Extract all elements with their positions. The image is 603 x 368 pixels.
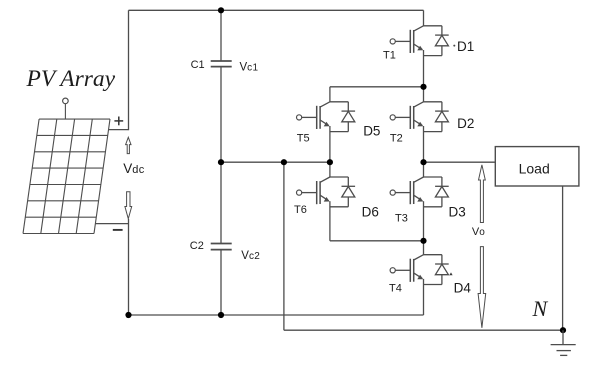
label - terminal bbox=[113, 229, 123, 231]
svg-text:D5: D5 bbox=[363, 123, 380, 138]
transistor T5 (IGBT) bbox=[297, 87, 330, 162]
svg-text:Vo: Vo bbox=[472, 226, 485, 238]
node node N junction bbox=[560, 327, 566, 333]
wire PV + terminal stub bbox=[109, 129, 129, 131]
transistor T2 (IGBT) bbox=[390, 87, 423, 162]
node bottom rail / left wire junction bbox=[125, 312, 131, 318]
svg-text:D3: D3 bbox=[449, 205, 466, 220]
svg-text:T5: T5 bbox=[297, 132, 310, 144]
svg-text:T2: T2 bbox=[390, 132, 403, 144]
svg-text:T4: T4 bbox=[389, 283, 402, 295]
wire capacitor bus between C1 and C2 bbox=[220, 67, 222, 244]
wire Load return (right side down to node N) bbox=[562, 186, 564, 330]
node bottom rail / capacitor bus junction bbox=[218, 312, 224, 318]
node capacitor midpoint node bbox=[218, 159, 224, 165]
svg-text:Load: Load bbox=[519, 161, 550, 177]
svg-text:PV Array: PV Array bbox=[26, 66, 116, 92]
load box bbox=[495, 147, 579, 186]
ground symbol bbox=[551, 330, 576, 355]
Vo down arrow bbox=[478, 247, 486, 328]
diode D4 (antiparallel across T4) bbox=[424, 255, 449, 285]
node node T3-T4 junction bbox=[420, 238, 426, 244]
wire PV terminal circle stub bbox=[64, 104, 66, 119]
small mark near D1 bbox=[453, 45, 455, 47]
svg-text:C2: C2 bbox=[190, 240, 204, 252]
wire bottom rail (negative DC bus) bbox=[129, 314, 424, 316]
transistor T3 (IGBT) bbox=[390, 162, 423, 241]
diode D3 (antiparallel across T3) bbox=[424, 177, 449, 207]
wire capacitor bus lower (C2 to bottom rail) bbox=[220, 250, 222, 315]
wire aux leg bottom link (T6 emitter to T3/T4 node) bbox=[330, 240, 424, 242]
node aux leg midpoint junction bbox=[327, 159, 333, 165]
svg-text:C1: C1 bbox=[191, 59, 205, 71]
PV array top terminal circle bbox=[63, 98, 69, 104]
transistor T1 (IGBT) bbox=[390, 10, 423, 87]
svg-text:T1: T1 bbox=[383, 50, 396, 62]
Vo up arrow bbox=[479, 165, 486, 223]
svg-text:D4: D4 bbox=[454, 281, 472, 296]
svg-text:Vdc: Vdc bbox=[123, 161, 145, 176]
label + terminal bbox=[114, 117, 123, 126]
diode D6 (antiparallel across T6) bbox=[330, 177, 355, 207]
wire aux leg top link (T5 collector to T1/T2 node) bbox=[330, 86, 424, 88]
wire neutral rail to ground node N bbox=[284, 329, 563, 331]
small mark near D4 bbox=[449, 272, 452, 275]
wire top rail (positive DC bus) bbox=[129, 9, 424, 11]
diode D2 (antiparallel across T2) bbox=[424, 102, 449, 132]
Vdc down arrow bbox=[125, 192, 132, 219]
capacitor C1 bbox=[211, 61, 232, 67]
diode D1 (antiparallel across T1) bbox=[424, 26, 449, 56]
wire left vertical from PV - terminal to bottom rail bbox=[128, 219, 130, 315]
node node T1-T2 junction bbox=[420, 84, 426, 90]
svg-text:Vc2: Vc2 bbox=[241, 250, 260, 262]
capacitor C2 bbox=[211, 244, 232, 250]
wire left vertical from top rail to PV + terminal bbox=[128, 10, 130, 130]
node top rail / capacitor bus junction bbox=[218, 7, 224, 13]
diode D5 (antiparallel across T5) bbox=[330, 102, 355, 132]
svg-text:T6: T6 bbox=[294, 204, 307, 216]
PV array panel (tilted grid) bbox=[23, 119, 110, 233]
wire capacitor bus upper (top rail to C1) bbox=[220, 10, 222, 61]
wire PV - terminal stub bbox=[95, 223, 128, 225]
node output node junction bbox=[420, 159, 426, 165]
wire capacitor midpoint to aux leg midpoint bbox=[221, 161, 330, 163]
Vdc small up arrow bbox=[126, 137, 131, 153]
transistor T4 (IGBT) bbox=[390, 241, 423, 315]
svg-text:D1: D1 bbox=[457, 39, 474, 54]
svg-text:Vc1: Vc1 bbox=[240, 62, 259, 74]
svg-text:D2: D2 bbox=[457, 116, 474, 131]
transistor T6 (IGBT) bbox=[297, 162, 330, 241]
wire inverter output to Load bbox=[424, 161, 496, 163]
node neutral tap junction bbox=[281, 159, 287, 165]
svg-text:N: N bbox=[532, 296, 549, 321]
svg-text:T3: T3 bbox=[395, 213, 408, 225]
svg-text:D6: D6 bbox=[362, 204, 379, 219]
wire neutral vertical drop bbox=[283, 162, 285, 330]
